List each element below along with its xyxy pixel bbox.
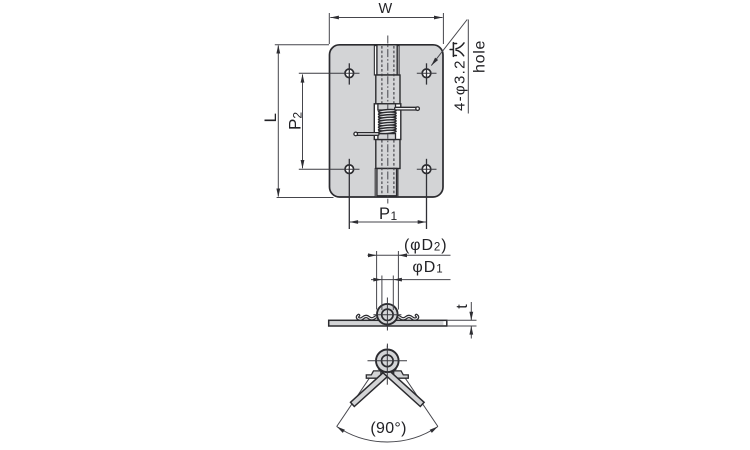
svg-text:t: t — [454, 304, 471, 309]
svg-text:(90°): (90°) — [370, 420, 406, 437]
svg-text:L: L — [261, 113, 280, 122]
svg-text:(φD2): (φD2) — [404, 237, 448, 254]
svg-text:W: W — [378, 1, 392, 17]
svg-text:hole: hole — [472, 40, 489, 73]
svg-text:φD1: φD1 — [412, 259, 443, 276]
svg-text:P1: P1 — [379, 205, 398, 223]
svg-text:4-φ3.2: 4-φ3.2 — [452, 59, 469, 111]
svg-text:P2: P2 — [286, 112, 305, 130]
